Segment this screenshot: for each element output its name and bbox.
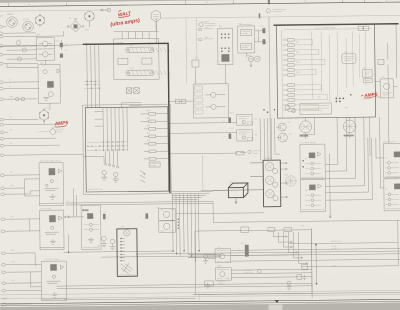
svg-text:R44: R44 [296, 72, 299, 74]
ground G2 [113, 172, 119, 182]
svg-text:P11: P11 [11, 216, 14, 218]
A4 input row 1 [283, 39, 303, 42]
blower motor BM1 [343, 120, 356, 137]
connector row CN2 [198, 38, 213, 41]
wire net timer K3 inputs [9, 253, 41, 291]
sensor box SN1 [215, 249, 231, 263]
ruler dark mark x270 [268, 0, 270, 4]
A4 input row 4 [283, 54, 303, 57]
wire bundle block to strip [260, 118, 280, 160]
svg-text:R41: R41 [296, 42, 299, 44]
svg-text:C11: C11 [261, 26, 264, 28]
main border bottom heavy [0, 299, 400, 304]
lamp cluster DS3 [248, 56, 260, 67]
ruler tick x187 [185, 0, 187, 4]
small box right edge [378, 59, 384, 64]
arrow wire down x329 [328, 154, 331, 219]
A4 junction cluster [335, 94, 351, 102]
bus y244 [288, 243, 398, 244]
svg-text:DS5: DS5 [284, 174, 288, 176]
amplifier block A4 [277, 24, 376, 118]
A4 lamp DS4 [285, 105, 295, 113]
lamp DS1 [16, 97, 20, 101]
wire y213 [177, 212, 264, 215]
svg-text:ELECTRIC TIME DELAY: ELECTRIC TIME DELAY [40, 160, 62, 163]
A4 input row 11 [283, 94, 303, 97]
svg-text:SN2: SN2 [217, 266, 221, 268]
svg-text:L1: L1 [9, 79, 11, 81]
left edge connector J24 [2, 282, 10, 285]
svg-text:F1: F1 [195, 58, 197, 60]
svg-text:P13: P13 [11, 262, 14, 264]
junction dots relay feed [302, 160, 303, 167]
pilot lamp DS5 [285, 176, 296, 187]
transistor Q2 [277, 133, 288, 142]
wire vert right col [311, 220, 398, 297]
svg-text:Q2: Q2 [289, 134, 292, 136]
gauge out arrows [280, 162, 287, 198]
junction dots left bus [64, 216, 69, 253]
ruler tick x344 [341, 0, 343, 3]
timer K2 box [40, 210, 64, 250]
left edge connector J8 [0, 87, 7, 90]
svg-text:HEAT CALL: HEAT CALL [331, 240, 341, 243]
small box SB5 [241, 227, 249, 233]
wire drops under A4 [306, 117, 390, 189]
svg-text:FL2: FL2 [344, 52, 347, 54]
svg-text:CON A: CON A [7, 13, 14, 16]
svg-text:T1: T1 [10, 117, 12, 119]
meter box MB2 [159, 221, 176, 233]
svg-text:R22: R22 [130, 68, 133, 70]
svg-text:R21: R21 [130, 45, 133, 47]
wire A1 right to heavy bus [54, 45, 83, 46]
svg-text:C12: C12 [241, 243, 244, 245]
A4 input row 6 [283, 64, 303, 67]
bus y287 [57, 286, 313, 289]
svg-text:R35: R35 [147, 140, 150, 142]
A4 sub box SB3 [363, 70, 373, 78]
gauge strip G5 [263, 160, 281, 207]
heavy net left tail [0, 45, 54, 48]
module A3 [238, 24, 255, 53]
fan arrows right bottom [273, 232, 307, 265]
capacitor C1 [60, 43, 63, 47]
lamp DS2 [21, 97, 25, 101]
riser x198 [195, 18, 197, 60]
A4 inner left rail [282, 30, 283, 118]
left edge connector J15 [0, 154, 8, 157]
A4 vertical rails [312, 31, 367, 102]
driver box B1 [193, 84, 228, 118]
left edge connector J3 [0, 35, 7, 38]
ground G6 [286, 281, 291, 289]
left edge connector J20 [1, 230, 9, 233]
svg-text:R43: R43 [296, 62, 299, 64]
wire at 153 [169, 151, 246, 153]
border line y296 [0, 294, 400, 299]
thermostat TH1 diamond [67, 18, 84, 32]
A4 input row 9 [283, 84, 303, 87]
svg-text:TD1: TD1 [40, 63, 44, 65]
svg-text:K8: K8 [385, 189, 387, 191]
U1 hook arrows [140, 114, 146, 183]
staircase wire 5 [325, 138, 369, 192]
junction dots fan [172, 250, 200, 257]
svg-text:MAIN LOGIC BD: MAIN LOGIC BD [88, 188, 103, 191]
A4 input row 3 [283, 49, 303, 52]
bus continuation [177, 251, 400, 256]
logic cell X2 [134, 88, 140, 94]
svg-text:CM2: CM2 [230, 128, 234, 130]
svg-text:PT 100: PT 100 [56, 132, 62, 134]
ground G3 [101, 236, 107, 246]
U1 resistor column [149, 113, 157, 161]
vert x315 dotted ends [315, 243, 317, 284]
strip motor sym [124, 230, 130, 236]
A4 rev boxes [358, 26, 369, 31]
gauge strip feed wires [213, 163, 264, 191]
left edge connector J17 [1, 187, 9, 190]
red note scan amps [110, 18, 141, 28]
fan out of U1 bottom [172, 194, 199, 263]
option block X3 [149, 162, 160, 167]
wire into cube [201, 189, 228, 191]
left edge connector J23 [2, 271, 10, 274]
staircase wire 6 [325, 138, 372, 200]
A4 caution box [300, 103, 332, 114]
border line y292 [0, 290, 400, 295]
left edge connector J11 [0, 123, 8, 126]
staircase wire 2 [325, 117, 347, 171]
svg-text:Q1: Q1 [288, 122, 291, 124]
small box SB2 [236, 152, 244, 155]
rotary switch S1 [35, 14, 44, 26]
capacitor C5 [262, 28, 269, 33]
ruler tick x388 [385, 0, 387, 2]
red note AMPS left [54, 120, 69, 127]
wire SN rows [208, 248, 400, 277]
ground G5b [204, 283, 210, 288]
A4 input row 7 [283, 69, 303, 72]
ruler tick x10 [8, 3, 10, 6]
arrow ref left [100, 8, 110, 12]
svg-text:TB3: TB3 [301, 225, 304, 227]
svg-text:P12: P12 [11, 250, 14, 252]
svg-text:SW1: SW1 [36, 34, 40, 36]
wire y298 left [64, 298, 195, 299]
svg-text:SHEET: SHEET [2, 298, 9, 300]
note circle typical [199, 22, 216, 26]
interface strip J30 [117, 229, 138, 277]
svg-text:J6: J6 [95, 105, 97, 107]
junction dot grid U1 [87, 81, 100, 89]
cap C9 [103, 214, 109, 219]
border line y294 [193, 292, 400, 294]
inner border line top-left [0, 10, 110, 11]
svg-text:K5: K5 [305, 158, 307, 160]
wire bus y222 [213, 220, 400, 222]
left edge connector J6 [0, 62, 7, 65]
meter box MB1 [159, 208, 176, 220]
svg-text:NOTE 3: NOTE 3 [202, 21, 209, 23]
wire net top-left B [7, 45, 38, 67]
resistor R2 [22, 48, 26, 52]
svg-text:3: 3 [104, 112, 105, 114]
svg-text:P14: P14 [11, 280, 14, 282]
wire K2 right [63, 188, 84, 217]
left edge connector J7 [0, 81, 7, 84]
svg-text:5: 5 [284, 57, 285, 59]
left edge connector J14 [0, 144, 8, 147]
left edge connector J26 [2, 303, 10, 306]
svg-text:FAN MTR: FAN MTR [300, 134, 309, 137]
contact block K5 in U2 [142, 58, 152, 64]
A4 input row 2 [283, 44, 303, 47]
gauge 3 [266, 189, 278, 200]
U1 dot grid lower [87, 141, 123, 151]
A4 input row 13 [283, 104, 303, 107]
left edge connector J12 [0, 131, 8, 134]
svg-text:TB2: TB2 [219, 26, 222, 28]
enclosure bottom center [195, 230, 312, 295]
connector P1 circular [7, 17, 18, 28]
sensor box SN2 [215, 268, 231, 281]
main border bottom second [0, 301, 400, 306]
left edge connector J18 [1, 193, 9, 196]
vert stub x197 bottom [198, 293, 200, 300]
left edge connector J5 [0, 53, 7, 56]
svg-text:R42: R42 [296, 52, 299, 54]
resistor R11 in U2 [126, 70, 170, 76]
fan stub wires right of U1 [171, 191, 213, 199]
parts bottom left-center [204, 281, 225, 286]
relay R-K8 box [384, 179, 400, 211]
left edge connector J4 [0, 44, 7, 47]
sym left of SN1 [203, 254, 208, 263]
note circle N2 [266, 9, 286, 13]
dark tick on net line x261 [259, 13, 261, 18]
wire vert x202 [201, 155, 203, 190]
gauge 2 [266, 176, 278, 187]
relay K9 mid box [81, 205, 101, 249]
svg-text:GAUGE: GAUGE [265, 157, 273, 160]
wires right of U1 [169, 101, 237, 134]
U1 faint rails lower [87, 142, 128, 150]
wire module to caps [255, 31, 263, 42]
wires right of A4 [375, 24, 398, 117]
bus segment dark [188, 254, 221, 257]
connector row CN1 [198, 28, 213, 31]
relay box A1 [36, 38, 54, 61]
svg-text:TP1: TP1 [317, 97, 320, 99]
amplifier block A4 top edge heavy [274, 24, 399, 25]
relay box A2 [38, 65, 61, 104]
svg-text:7: 7 [284, 67, 285, 69]
net line y17.7 [161, 15, 400, 18]
left edge connector J19 [1, 218, 9, 221]
junction dots on heavy bus [86, 43, 150, 46]
svg-text:115V: 115V [205, 27, 210, 29]
svg-text:AMP5: AMP5 [54, 120, 69, 127]
svg-text:A2: A2 [363, 67, 365, 70]
svg-text:1: 1 [88, 112, 89, 114]
resistor R10 in U2 [126, 47, 170, 53]
svg-text:24 VAC: 24 VAC [331, 247, 338, 250]
A4 input row 14 [283, 109, 303, 112]
ruler tick x235 [232, 1, 234, 4]
svg-text:R34: R34 [147, 133, 150, 135]
svg-text:SW2: SW2 [85, 29, 89, 31]
left edge connector J13 [0, 137, 8, 140]
contact block K4 in U2 [118, 58, 128, 64]
title block tab in margin [269, 305, 283, 310]
riser x187 [185, 18, 188, 84]
wire net top-left A [7, 31, 64, 37]
IC block outer enclosure [83, 104, 172, 194]
bus y284 [56, 283, 312, 286]
svg-text:LOW NOX: LOW NOX [244, 272, 254, 274]
svg-text:20: 20 [67, 201, 69, 203]
pin terminal row [104, 151, 118, 168]
svg-text:2: 2 [96, 112, 97, 114]
wire net mid column [225, 17, 271, 160]
wire net timer K2 inputs [9, 219, 40, 231]
wire risers into U2 [113, 18, 158, 44]
svg-text:R32: R32 [147, 118, 150, 120]
A4 filter module FL2 [342, 54, 356, 64]
sym circle small [257, 269, 261, 273]
svg-text:CM1: CM1 [230, 112, 234, 114]
wire net mid-left [7, 81, 83, 155]
wire cap stubs [61, 40, 68, 50]
transistor Q1 [276, 123, 286, 131]
dotted leader [38, 131, 50, 133]
A4 input row 10 [283, 89, 303, 92]
staircase wire right 2 [380, 187, 383, 189]
svg-text:TP2: TP2 [344, 107, 347, 109]
logic cell X1 [126, 88, 132, 94]
wire bus y201 [66, 201, 213, 203]
svg-text:RELAY TIME: RELAY TIME [41, 207, 53, 210]
svg-text:PS1: PS1 [239, 23, 243, 25]
sensor module M3 [237, 130, 253, 141]
A4 input row 5 [283, 59, 303, 62]
wire vent [10, 303, 32, 305]
left edge connector J10 [0, 118, 8, 121]
ruler tick x366 [363, 0, 365, 2]
svg-text:3: 3 [284, 47, 285, 49]
motor box M4 right [380, 79, 393, 98]
note circle N3 [248, 150, 260, 154]
svg-text:GND: GND [9, 96, 14, 98]
power cap CB1 [239, 245, 249, 257]
part pair P5 [175, 99, 186, 104]
resistor R1 [16, 41, 20, 46]
junction dots bundle [263, 109, 275, 113]
wire A2 down [49, 103, 51, 110]
part left edge col [302, 264, 308, 279]
svg-text:K6: K6 [305, 190, 307, 192]
svg-text:R31: R31 [146, 110, 149, 112]
U1 internal hooks [94, 103, 141, 127]
control box U2 above IC [113, 38, 159, 79]
svg-text:J30: J30 [121, 226, 124, 228]
border arrow marker [275, 300, 280, 303]
cap C8 [223, 133, 231, 138]
terminal board TB1 [218, 28, 233, 65]
wire stub left of U1 [83, 157, 104, 164]
U1 resistor wires [144, 114, 169, 159]
svg-text:SIGNAL CONDITIONER: SIGNAL CONDITIONER [315, 26, 336, 29]
svg-text:SN1: SN1 [217, 247, 221, 249]
svg-text:M4: M4 [382, 77, 385, 79]
svg-text:L2: L2 [9, 86, 11, 88]
relay R-K5 box [300, 144, 325, 179]
svg-text:21: 21 [67, 215, 69, 217]
svg-text:CONTROL TIME: CONTROL TIME [44, 259, 59, 261]
svg-text:T3: T3 [10, 143, 12, 145]
gauge 1 [265, 162, 277, 173]
cap C7 [223, 117, 231, 122]
strip diagonal lashes [121, 263, 133, 274]
junction box cube [228, 183, 248, 204]
strip pin hooks [120, 238, 125, 262]
left edge connector J1 [0, 25, 7, 28]
left edge connector J9 [0, 98, 7, 101]
A4 inner top line [284, 28, 372, 31]
U1 internal verticals [103, 108, 127, 151]
svg-text:P9: P9 [10, 172, 12, 174]
small parts above fan arrows [268, 227, 292, 231]
wire vert x212 [212, 201, 214, 222]
svg-text:R3: R3 [19, 40, 21, 42]
hex flag note FL1 [151, 10, 161, 31]
part right edge PB1 [297, 275, 302, 280]
timer K1 box [39, 163, 63, 206]
wire risers into U1 top [87, 45, 100, 108]
svg-text:1: 1 [284, 37, 285, 39]
wire net timer K1 inputs [8, 175, 39, 196]
cap C10 [140, 213, 148, 218]
A4 input row 8 [283, 74, 303, 77]
svg-text:C9: C9 [104, 212, 106, 214]
svg-text:P10: P10 [10, 185, 13, 187]
staircase wire 4 [325, 117, 365, 186]
bus y268 [301, 266, 398, 267]
red note AMPS right [361, 92, 379, 99]
pin rail lines U1 [84, 81, 100, 88]
svg-text:4: 4 [112, 112, 113, 114]
IC block U1 [85, 107, 168, 192]
ruler tick x68 [65, 3, 67, 6]
heavy emphasized net top [83, 43, 170, 194]
relay R-K7 box [383, 143, 400, 178]
motor symbol M1 [39, 109, 49, 124]
bus lines bottom main [64, 251, 192, 258]
A4 sub box SB4 [364, 78, 373, 82]
left edge connector J25 [2, 289, 10, 292]
A4 step wires upper [303, 40, 328, 110]
wire bus y203 [66, 203, 213, 205]
potentiometer R4 [50, 127, 56, 134]
A4 input row 12 [283, 99, 303, 102]
top ruler border line [0, 2, 400, 7]
capacitor C6 [262, 39, 269, 44]
rotary switch S2 [85, 11, 95, 27]
left edge connector J16 [0, 174, 8, 177]
vert x67 [67, 234, 69, 252]
